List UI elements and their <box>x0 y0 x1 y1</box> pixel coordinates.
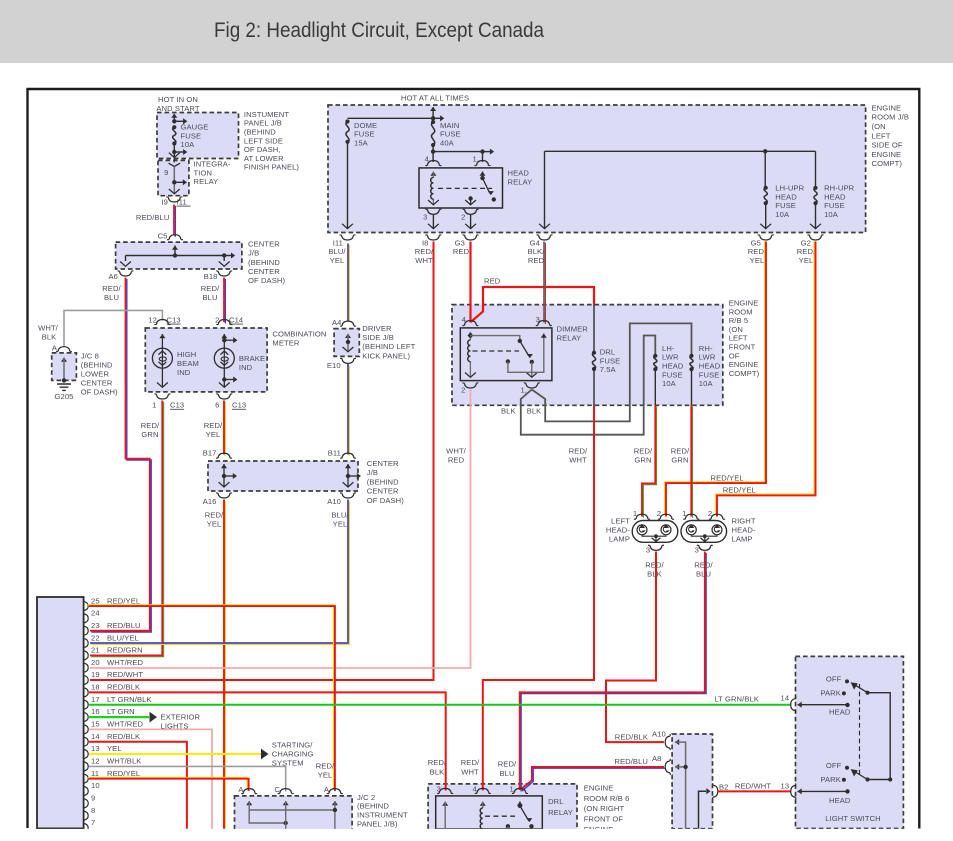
svg-text:RH-UPR: RH-UPR <box>824 184 855 193</box>
svg-text:AT LOWER: AT LOWER <box>244 154 284 163</box>
svg-text:RED/: RED/ <box>205 511 224 520</box>
svg-text:G3: G3 <box>455 238 465 247</box>
svg-text:I11: I11 <box>333 238 343 247</box>
svg-text:DRIVER: DRIVER <box>362 324 392 333</box>
svg-text:HEAD: HEAD <box>824 192 846 201</box>
svg-text:ENGINE: ENGINE <box>872 150 902 159</box>
svg-text:SIDE J/B: SIDE J/B <box>362 333 394 342</box>
pin 18 hook <box>84 688 88 697</box>
svg-text:1,: 1, <box>509 784 516 793</box>
svg-text:E10: E10 <box>327 361 341 370</box>
svg-text:WHT/RED: WHT/RED <box>107 658 144 667</box>
svg-text:10A: 10A <box>181 140 196 149</box>
pin 9 hook <box>84 799 88 808</box>
svg-text:SIDE OF: SIDE OF <box>872 141 903 150</box>
svg-text:10: 10 <box>91 781 100 790</box>
svg-text:FUSE: FUSE <box>354 130 375 139</box>
wire I11 inside J/B <box>347 142 349 229</box>
svg-text:A4: A4 <box>332 318 342 327</box>
svg-text:ENGINE: ENGINE <box>584 783 614 792</box>
svg-text:23: 23 <box>91 621 100 630</box>
svg-text:FUSE: FUSE <box>662 370 683 379</box>
svg-text:RED/: RED/ <box>645 561 664 570</box>
svg-text:A8: A8 <box>652 754 662 763</box>
svg-text:RELAY: RELAY <box>508 178 533 187</box>
svg-text:LAMP: LAMP <box>609 535 630 544</box>
pin 11 hook <box>84 774 88 783</box>
left instrument-panel connector block <box>37 597 84 828</box>
J/C 8 box <box>52 353 77 381</box>
svg-text:PANEL J/B: PANEL J/B <box>244 119 282 128</box>
svg-text:RED/GRN: RED/GRN <box>107 646 143 655</box>
svg-text:RED/: RED/ <box>141 421 160 430</box>
wire RED/BLK pin 14 down <box>89 742 187 829</box>
svg-text:RED/BLU: RED/BLU <box>136 213 170 222</box>
svg-text:RED: RED <box>448 455 465 464</box>
svg-text:17: 17 <box>91 695 100 704</box>
svg-text:BLU: BLU <box>696 570 711 579</box>
center J/B 1 internals <box>172 246 178 250</box>
pin 23 hook <box>84 626 88 635</box>
svg-text:RED/: RED/ <box>102 284 121 293</box>
connector A6 exit <box>118 271 134 276</box>
pin 15 hook <box>84 725 88 734</box>
fuse LH-LWR HEAD FUSE 10A <box>653 354 657 358</box>
svg-text:DIMMER: DIMMER <box>557 325 589 334</box>
svg-text:B2: B2 <box>719 783 729 792</box>
svg-text:COMBINATION: COMBINATION <box>272 330 326 339</box>
svg-text:WHT/BLK: WHT/BLK <box>107 757 141 766</box>
svg-text:10A: 10A <box>699 379 714 388</box>
brake indicator bulb <box>221 334 227 338</box>
svg-text:(BEHIND: (BEHIND <box>248 258 280 267</box>
svg-text:ENGINE: ENGINE <box>729 299 759 308</box>
svg-text:RED: RED <box>528 256 545 265</box>
light switch upper arm <box>865 691 869 695</box>
svg-text:BLU: BLU <box>499 769 514 778</box>
svg-text:25: 25 <box>91 596 100 605</box>
svg-text:19: 19 <box>91 670 100 679</box>
svg-text:FINISH PANEL): FINISH PANEL) <box>244 163 300 172</box>
head relay switch <box>479 172 485 176</box>
svg-text:RED/BLK: RED/BLK <box>107 683 140 692</box>
svg-text:LH-: LH- <box>662 344 675 353</box>
svg-text:A10: A10 <box>327 497 341 506</box>
svg-text:LEFT: LEFT <box>872 131 891 140</box>
integration relay box <box>158 160 189 195</box>
svg-text:RED/YEL: RED/YEL <box>723 486 756 495</box>
svg-text:10A: 10A <box>775 210 790 219</box>
svg-text:1: 1 <box>152 401 156 410</box>
wire RED/BLU right headlamp pin 3 to DRL relay pin 1 <box>521 553 706 792</box>
svg-text:LEFT SIDE: LEFT SIDE <box>244 136 283 145</box>
svg-text:FUSE: FUSE <box>699 370 720 379</box>
svg-text:RED/: RED/ <box>569 446 588 455</box>
svg-text:YEL: YEL <box>330 256 345 265</box>
svg-text:HOT AT ALL TIMES: HOT AT ALL TIMES <box>401 93 469 102</box>
title bar <box>0 0 953 63</box>
wire BLU/YEL I11 to A4 <box>348 245 350 323</box>
svg-text:BLK: BLK <box>501 406 516 415</box>
svg-text:BLU/: BLU/ <box>328 247 346 256</box>
svg-text:WHT: WHT <box>569 455 587 464</box>
svg-text:G205: G205 <box>55 392 74 401</box>
svg-text:MAIN: MAIN <box>440 121 459 130</box>
svg-text:GAUGE: GAUGE <box>181 123 209 132</box>
svg-text:YEL: YEL <box>333 520 348 529</box>
svg-text:YEL: YEL <box>206 430 221 439</box>
svg-text:RED/WHT: RED/WHT <box>735 782 771 791</box>
fuse MAIN FUSE 40A <box>431 120 435 124</box>
svg-text:BLK: BLK <box>430 767 445 776</box>
svg-text:WHT/: WHT/ <box>446 446 467 455</box>
connector B2 exit <box>699 791 707 829</box>
connector A10 entry <box>665 734 670 750</box>
svg-text:HIGH: HIGH <box>177 350 196 359</box>
svg-text:HEAD-: HEAD- <box>732 526 756 535</box>
wire BLU/YEL A10 to pin 22 <box>91 501 349 645</box>
svg-text:INTEGRA-: INTEGRA- <box>194 160 231 169</box>
svg-text:PARK: PARK <box>820 775 841 784</box>
svg-text:WHT/RED: WHT/RED <box>107 720 144 729</box>
center J/B box 2 <box>208 461 358 491</box>
svg-text:HEAD: HEAD <box>662 362 684 371</box>
pin 24 hook <box>84 614 88 623</box>
head relay dashed link <box>438 187 492 189</box>
svg-text:12: 12 <box>91 757 100 766</box>
svg-text:1: 1 <box>633 509 637 518</box>
connector I8 exit <box>425 235 441 240</box>
svg-text:BLU/: BLU/ <box>331 511 349 520</box>
svg-text:CENTER: CENTER <box>248 239 280 248</box>
connector A8 entry <box>665 759 670 775</box>
A10/A8 relay-block connector box <box>672 734 712 829</box>
svg-text:R/B 5: R/B 5 <box>729 316 749 325</box>
pin 19 hook <box>84 676 88 685</box>
wire RED/YEL G5 to left headlamp pin 2 <box>665 240 765 515</box>
wire RED/BLK pin 18 to DRL relay pin 3 <box>89 692 446 790</box>
svg-text:BLK: BLK <box>647 570 662 579</box>
svg-text:RED/: RED/ <box>201 284 220 293</box>
svg-text:(BEHIND: (BEHIND <box>81 360 113 369</box>
fuse RH-UPR HEAD FUSE 10A <box>813 186 817 190</box>
svg-text:RED/BLU: RED/BLU <box>614 757 648 766</box>
UPR head fuse feed rail <box>545 150 816 152</box>
wire RED/YEL G2 to right headlamp pin 2 <box>716 240 815 515</box>
svg-text:BLU: BLU <box>202 293 217 302</box>
right headlamp <box>681 521 727 543</box>
svg-text:LWR: LWR <box>699 353 716 362</box>
svg-text:GRN: GRN <box>141 430 158 439</box>
wire RED/YEL pin 6 to B17 <box>224 402 226 456</box>
pin 10 hook <box>84 787 88 796</box>
wire RED/BLK left headlamp pin 3 to A10 <box>606 552 664 743</box>
light switch mechanical dashed link <box>859 684 861 776</box>
svg-text:RED/YEL: RED/YEL <box>107 596 140 605</box>
svg-text:A6: A6 <box>109 272 119 281</box>
connector B18 exit <box>216 271 232 276</box>
wire RED/GRN RH-LWR fuse to right headlamp pin 1 <box>692 407 694 518</box>
svg-text:IND: IND <box>177 368 191 377</box>
integration relay internals <box>169 163 181 166</box>
svg-text:YEL: YEL <box>750 256 765 265</box>
svg-text:COMPT): COMPT) <box>872 159 903 168</box>
svg-text:ENGINE: ENGINE <box>872 103 902 112</box>
svg-text:8: 8 <box>91 806 95 815</box>
svg-text:21: 21 <box>91 646 100 655</box>
svg-text:(BEHIND LEFT: (BEHIND LEFT <box>362 342 415 351</box>
svg-text:13: 13 <box>781 782 790 791</box>
svg-text:J/C 2: J/C 2 <box>357 793 375 802</box>
connector G4 exit <box>537 235 553 240</box>
wire RED/WHT DRL fuse to DRL relay pin 4 <box>483 405 594 790</box>
svg-text:C13: C13 <box>170 401 184 410</box>
J/C 2 box <box>235 796 353 830</box>
svg-text:FUSE: FUSE <box>824 201 845 210</box>
wire RED/BLU I11 to C5 <box>174 206 176 237</box>
svg-text:B11: B11 <box>328 448 341 457</box>
wire BLK/RED G4 to dimmer pin 3 <box>544 243 546 324</box>
svg-text:WHT/: WHT/ <box>38 324 59 333</box>
svg-text:2: 2 <box>657 509 661 518</box>
DRL relay internals <box>442 802 448 806</box>
wire WHT/BLK pin 12 to J/C 2 C <box>89 766 286 791</box>
svg-text:CENTER: CENTER <box>367 487 399 496</box>
svg-text:FUSE: FUSE <box>600 356 621 365</box>
connector 6 C13 exit <box>216 394 232 399</box>
connector G3 exit <box>463 235 479 240</box>
svg-text:RED/: RED/ <box>671 446 690 455</box>
svg-text:RED/: RED/ <box>694 561 713 570</box>
svg-text:RED/: RED/ <box>428 758 447 767</box>
wire RED/WHT I8 to pin 19 <box>90 242 434 681</box>
svg-text:LAMP: LAMP <box>732 535 753 544</box>
connector A16 exit <box>216 493 232 498</box>
svg-text:OF DASH): OF DASH) <box>248 276 285 285</box>
svg-text:WHT: WHT <box>415 256 433 265</box>
svg-text:LT GRN/BLK: LT GRN/BLK <box>714 695 759 704</box>
svg-text:C13: C13 <box>232 401 246 410</box>
wire BLU/YEL E10 to B11 <box>348 365 350 456</box>
wire RED/GRN LH-LWR fuse to left headlamp pin 1 <box>643 407 656 518</box>
svg-text:HEAD: HEAD <box>829 796 851 805</box>
svg-text:RED/: RED/ <box>316 762 335 771</box>
svg-text:1,: 1, <box>520 385 527 394</box>
svg-text:PARK: PARK <box>820 688 841 697</box>
pin 25 hook <box>84 602 88 611</box>
light switch pin 13 connector <box>791 783 796 799</box>
svg-text:(BEHIND: (BEHIND <box>367 477 399 486</box>
svg-text:STARTING/: STARTING/ <box>272 741 313 750</box>
pin 13 hook <box>84 750 88 759</box>
svg-text:G4: G4 <box>530 238 540 247</box>
svg-text:RED/YEL: RED/YEL <box>107 769 140 778</box>
head relay pin 2 wire to exit <box>463 209 479 214</box>
combination meter box <box>145 328 267 392</box>
svg-text:YEL: YEL <box>799 256 814 265</box>
svg-text:METER: METER <box>272 339 299 348</box>
driver side J/B internals <box>345 334 351 338</box>
pin 17 hook <box>84 700 88 709</box>
svg-text:HOT IN ON: HOT IN ON <box>158 95 198 104</box>
svg-text:Fig 2: Headlight Circuit, Exce: Fig 2: Headlight Circuit, Except Canada <box>214 19 544 42</box>
dimmer relay switch <box>470 336 519 341</box>
svg-text:OFF: OFF <box>826 674 842 683</box>
svg-text:INSTUMENT: INSTUMENT <box>244 110 289 119</box>
svg-text:40A: 40A <box>440 138 455 147</box>
pin 20 hook <box>84 663 88 672</box>
dimmer relay pin-3 internal run <box>508 334 544 373</box>
svg-text:RELAY: RELAY <box>548 808 573 817</box>
svg-text:C14: C14 <box>229 315 243 324</box>
light switch common link <box>868 693 891 780</box>
head relay coil <box>430 172 436 176</box>
svg-text:LEFT: LEFT <box>729 334 748 343</box>
connector A10 exit <box>340 493 356 498</box>
wire WHT/RED pin 15 down <box>89 729 212 828</box>
svg-text:GRN: GRN <box>671 455 688 464</box>
wire YEL pin 13 to starting/charging <box>89 753 261 755</box>
svg-text:OF DASH): OF DASH) <box>367 496 404 505</box>
svg-text:CENTER: CENTER <box>367 459 399 468</box>
svg-text:HEAD: HEAD <box>508 169 530 178</box>
light switch pin 14 connector <box>791 697 796 713</box>
connector G5 exit <box>758 235 774 240</box>
svg-text:COMPT): COMPT) <box>729 369 760 378</box>
svg-text:RED/: RED/ <box>204 421 223 430</box>
svg-text:TION: TION <box>194 168 213 177</box>
svg-text:2: 2 <box>461 385 465 394</box>
svg-text:I11: I11 <box>177 197 187 206</box>
svg-text:RED/: RED/ <box>461 758 480 767</box>
fuse DRL FUSE 7.5A <box>593 305 595 353</box>
svg-text:BLK/: BLK/ <box>528 247 546 256</box>
svg-text:FRONT: FRONT <box>729 343 756 352</box>
J/C 8 internals <box>61 358 67 362</box>
svg-text:7.5A: 7.5A <box>600 365 617 374</box>
svg-text:10A: 10A <box>824 210 839 219</box>
svg-text:LOWER: LOWER <box>81 369 110 378</box>
high beam indicator bulb <box>159 334 165 338</box>
svg-text:B17: B17 <box>203 448 217 457</box>
engine room R/B 5 box <box>452 305 723 406</box>
svg-text:BEAM: BEAM <box>177 359 199 368</box>
svg-text:3: 3 <box>646 546 650 555</box>
engine room R/B 6 box <box>428 784 577 830</box>
svg-text:KICK PANEL): KICK PANEL) <box>362 351 410 360</box>
svg-text:20: 20 <box>91 658 100 667</box>
engine room J/B feed wire <box>430 107 436 111</box>
pin 21 hook <box>84 651 88 660</box>
wire LT GRN/BLK pin 17 to light switch pin 14 <box>89 704 791 706</box>
svg-text:G5: G5 <box>751 238 761 247</box>
fuse GAUGE FUSE 10A <box>172 125 176 129</box>
svg-text:RED/BLK: RED/BLK <box>107 732 140 741</box>
svg-text:YEL: YEL <box>207 520 222 529</box>
DRL relay box <box>436 796 543 829</box>
svg-text:OF DASH): OF DASH) <box>81 387 118 396</box>
pin 22 hook <box>84 639 88 648</box>
pin 12 hook <box>84 762 88 771</box>
connector A entry on J/C 8 <box>56 347 72 352</box>
connector I9/I11 exit <box>166 197 182 202</box>
svg-text:BRAKE: BRAKE <box>239 354 265 363</box>
svg-text:BLK: BLK <box>42 333 57 342</box>
svg-text:RED/: RED/ <box>415 247 434 256</box>
svg-text:DRL: DRL <box>548 797 564 806</box>
svg-text:(BEHIND: (BEHIND <box>244 128 276 137</box>
svg-text:LEFT: LEFT <box>611 517 630 526</box>
svg-text:LWR: LWR <box>662 353 679 362</box>
dimmer relay coil <box>467 332 473 336</box>
pin 16 hook <box>84 713 88 722</box>
svg-text:LH-UPR: LH-UPR <box>775 184 804 193</box>
svg-text:GRN: GRN <box>634 455 651 464</box>
svg-text:LT GRN/BLK: LT GRN/BLK <box>107 695 152 704</box>
wire WHT/BLK to combination meter pin 12 <box>64 310 162 347</box>
svg-text:3: 3 <box>695 546 699 555</box>
svg-text:A: A <box>52 344 58 353</box>
svg-text:1: 1 <box>682 509 686 518</box>
svg-text:15A: 15A <box>354 138 369 147</box>
svg-text:RED/: RED/ <box>634 446 653 455</box>
svg-text:7: 7 <box>91 818 95 827</box>
wire RED/YEL pin 25 to J/C 2 <box>88 605 334 790</box>
svg-text:RED/BLU: RED/BLU <box>107 621 141 630</box>
svg-text:6: 6 <box>215 401 219 410</box>
svg-text:BLK: BLK <box>527 406 542 415</box>
svg-text:RELAY: RELAY <box>194 177 219 186</box>
svg-text:AND START: AND START <box>156 104 199 113</box>
svg-text:RED/BLK: RED/BLK <box>615 733 648 742</box>
main fuse branch to head relay pin 1 <box>432 145 434 162</box>
svg-text:18: 18 <box>91 683 100 692</box>
svg-text:3: 3 <box>423 213 427 222</box>
branch arrow in instrument J/B <box>174 120 183 122</box>
wire RED branch to DRL fuse <box>471 287 594 322</box>
svg-text:(BEHIND: (BEHIND <box>357 802 389 811</box>
wire RED/YEL A16 down <box>224 501 226 830</box>
svg-text:INSTRUMENT: INSTRUMENT <box>357 811 408 820</box>
svg-text:CHARGING: CHARGING <box>272 750 314 759</box>
svg-text:RED/: RED/ <box>797 247 816 256</box>
connector G2 exit <box>808 235 824 240</box>
svg-text:10A: 10A <box>662 379 677 388</box>
svg-text:J/C 8: J/C 8 <box>81 351 99 360</box>
svg-text:24: 24 <box>91 609 100 618</box>
left headlamp <box>632 521 678 543</box>
J/C 2 internals <box>246 801 252 805</box>
svg-text:G2: G2 <box>801 238 811 247</box>
svg-text:PANEL J/B): PANEL J/B) <box>357 820 398 829</box>
svg-text:(ON RIGHT: (ON RIGHT <box>584 804 625 813</box>
dimmer relay dashed link <box>473 350 520 352</box>
fuse LH-UPR HEAD FUSE 10A <box>764 186 768 190</box>
svg-text:RED/WHT: RED/WHT <box>107 670 143 679</box>
fuse DOME FUSE 15A <box>345 119 349 123</box>
wire below gauge fuse <box>173 144 175 153</box>
svg-text:I9: I9 <box>161 197 168 206</box>
svg-text:FUSE: FUSE <box>440 130 461 139</box>
svg-text:OF: OF <box>729 351 740 360</box>
svg-text:ROOM R/B 6: ROOM R/B 6 <box>584 794 630 803</box>
svg-text:RED/: RED/ <box>498 760 517 769</box>
BLK wires dimmer pin 1 to LWR fuses <box>521 336 656 435</box>
svg-text:RED/YEL: RED/YEL <box>711 473 744 482</box>
svg-text:15: 15 <box>91 720 100 729</box>
svg-text:BLU/YEL: BLU/YEL <box>107 633 139 642</box>
svg-text:ROOM J/B: ROOM J/B <box>872 113 910 122</box>
